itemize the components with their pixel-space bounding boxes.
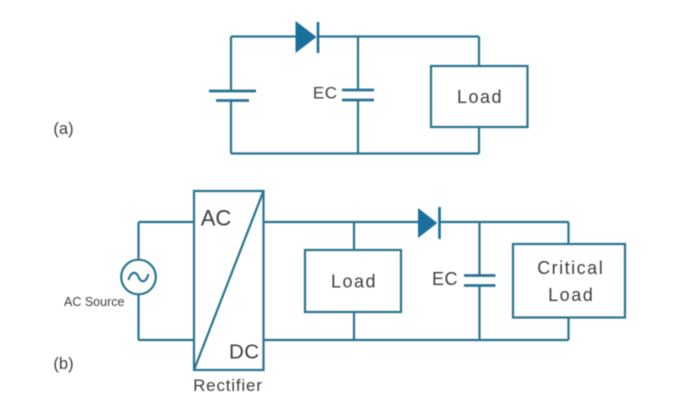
svg-text:DC: DC	[229, 341, 260, 364]
svg-text:Load: Load	[548, 285, 594, 305]
wire bottom (b)	[264, 339, 569, 341]
svg-text:(b): (b)	[53, 355, 73, 373]
rectifier U1	[194, 191, 264, 370]
svg-text:EC: EC	[313, 84, 338, 103]
battery B1	[209, 37, 256, 154]
wire bottom (a)	[231, 152, 479, 154]
diode D1	[296, 21, 319, 53]
svg-text:EC: EC	[432, 269, 458, 289]
critical load box	[513, 244, 625, 318]
wire top (b)	[264, 221, 569, 223]
svg-text:AC Source: AC Source	[64, 295, 124, 309]
svg-text:Load: Load	[457, 87, 503, 107]
capacitor EC (b)	[464, 222, 496, 340]
load box (b)	[305, 250, 401, 312]
svg-text:AC: AC	[201, 205, 232, 230]
wire source bottom	[139, 294, 195, 340]
wire critical load bottom	[567, 318, 569, 341]
diode D2	[418, 207, 440, 239]
wire load top (a)	[478, 37, 480, 67]
wire top (a)	[231, 35, 479, 37]
AC source V1	[121, 260, 156, 295]
wire critical load top	[567, 222, 569, 244]
wire source top	[139, 222, 195, 260]
wire load top (b)	[353, 222, 355, 250]
svg-text:(a): (a)	[53, 120, 73, 138]
wire load bottom (a)	[478, 127, 480, 154]
load box (a)	[431, 66, 528, 127]
svg-text:Rectifier: Rectifier	[193, 376, 263, 395]
svg-text:Critical: Critical	[537, 258, 604, 278]
capacitor EC (a)	[342, 37, 374, 154]
svg-text:Load: Load	[331, 272, 377, 292]
wire load bottom (b)	[353, 312, 355, 340]
